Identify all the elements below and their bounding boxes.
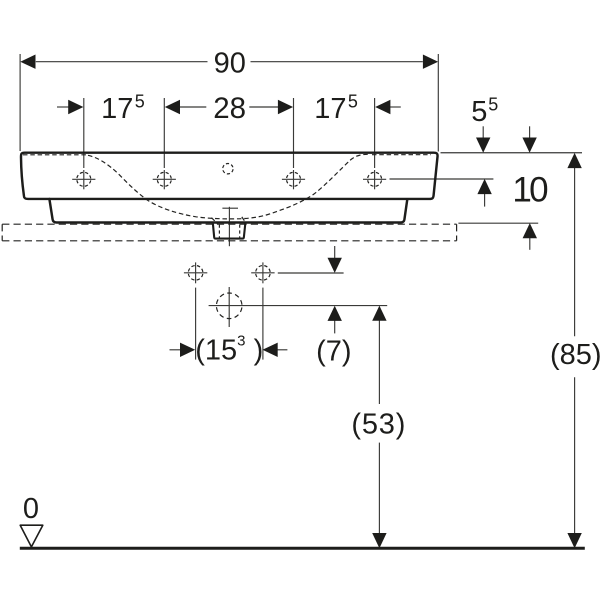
- svg-text:28: 28: [213, 92, 246, 125]
- svg-text:(153): (153): [195, 333, 263, 367]
- svg-text:10: 10: [512, 171, 548, 210]
- svg-text:90: 90: [214, 48, 246, 80]
- svg-text:0: 0: [23, 493, 39, 525]
- svg-text:(85): (85): [550, 339, 600, 371]
- svg-text:(7): (7): [316, 336, 351, 368]
- svg-text:(53): (53): [351, 408, 406, 440]
